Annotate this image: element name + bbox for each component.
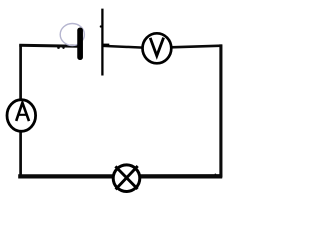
noise dot near bottom-right corner xyxy=(215,174,217,176)
voltmeter V1 xyxy=(143,33,172,63)
wire left vertical xyxy=(19,44,22,177)
wire battery to voltmeter xyxy=(103,46,143,48)
wire top-left segment xyxy=(19,45,78,46)
wire bottom xyxy=(18,174,222,178)
wire voltmeter to top-right corner xyxy=(171,46,222,48)
wire bump artifacts xyxy=(57,46,60,49)
ammeter A1 xyxy=(7,100,36,132)
battery B1 xyxy=(80,9,109,76)
wire right vertical xyxy=(219,44,222,177)
lamp L1 xyxy=(113,165,140,192)
annotation circle (faint) xyxy=(60,24,84,46)
